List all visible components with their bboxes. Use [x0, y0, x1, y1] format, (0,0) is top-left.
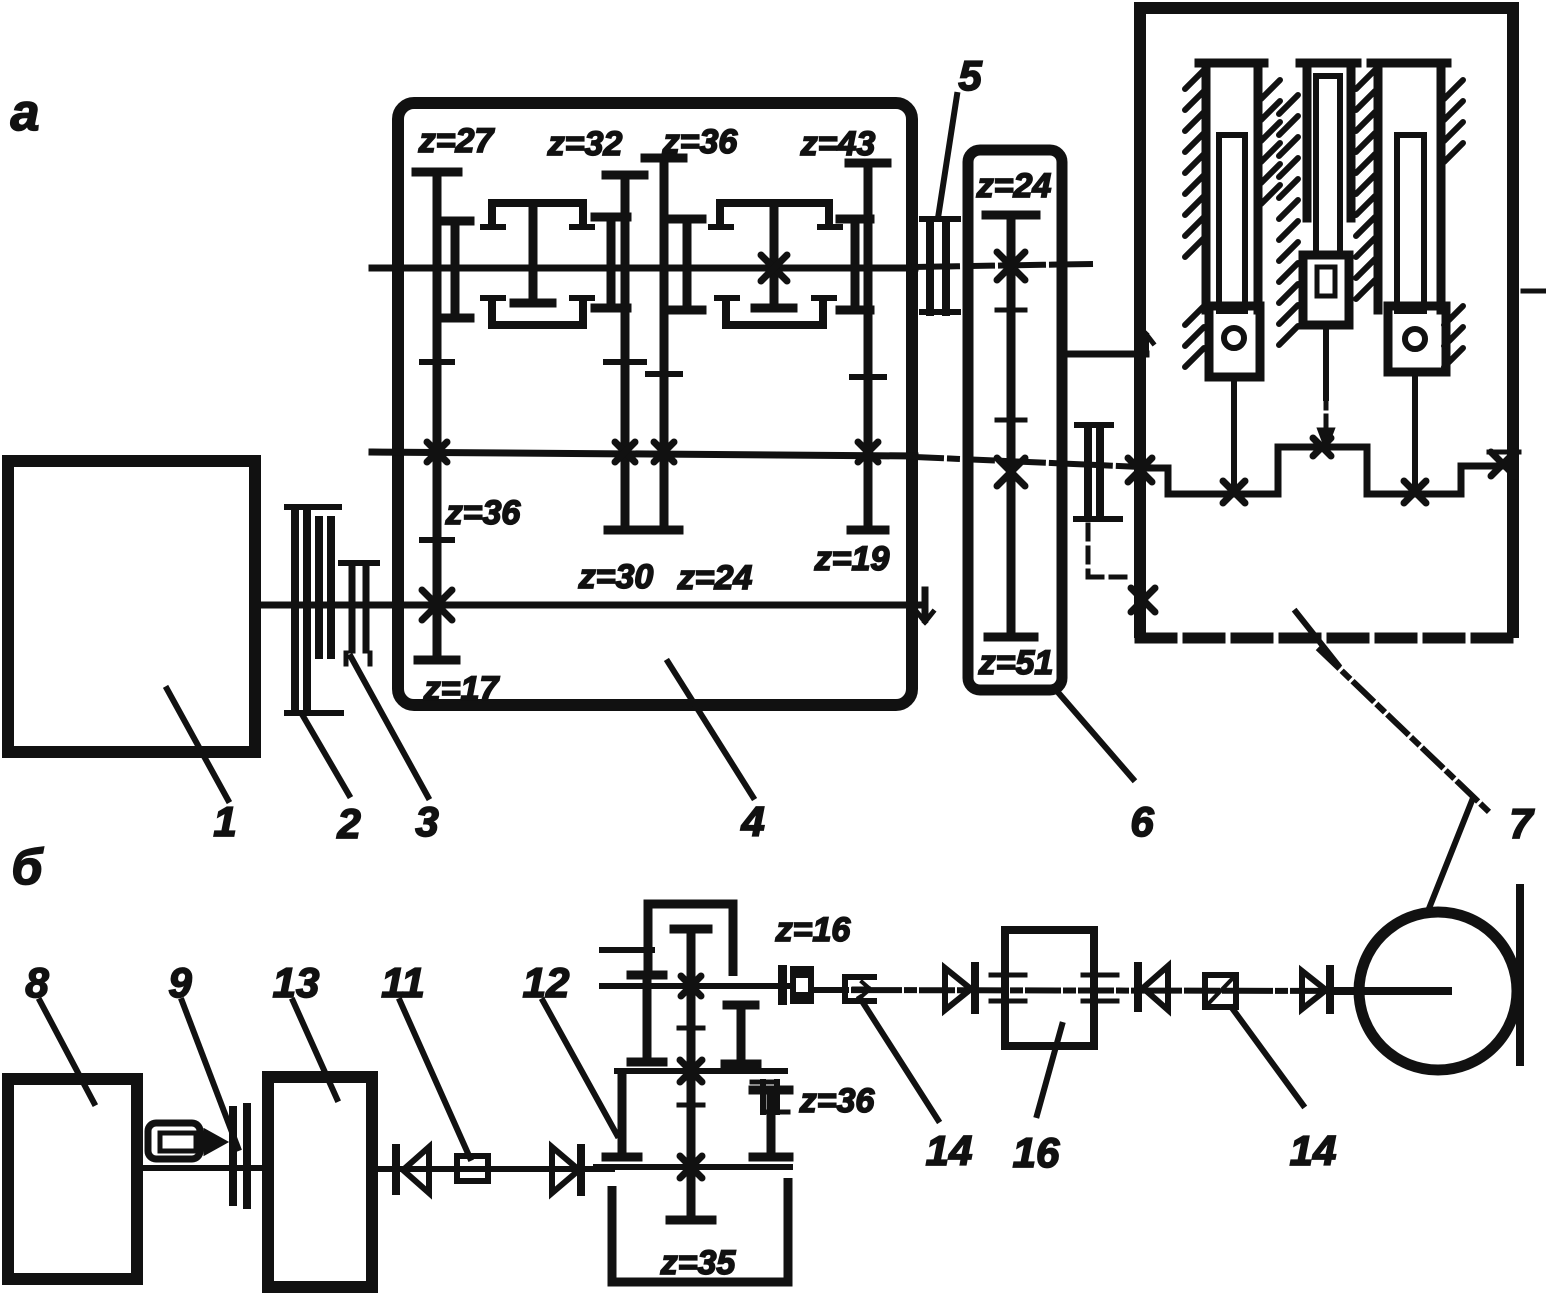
svg-text:8: 8	[25, 959, 49, 1006]
svg-text:16: 16	[1013, 1129, 1060, 1176]
svg-text:11: 11	[381, 959, 425, 1006]
svg-text:z=43: z=43	[800, 125, 876, 163]
svg-text:б: б	[12, 839, 45, 895]
svg-text:9: 9	[168, 959, 192, 1006]
svg-text:z=35: z=35	[660, 1244, 737, 1282]
svg-text:13: 13	[273, 959, 320, 1006]
svg-text:z=30: z=30	[578, 558, 654, 596]
svg-text:z=27: z=27	[418, 122, 496, 160]
svg-text:7: 7	[1509, 800, 1534, 847]
svg-text:2: 2	[336, 800, 360, 847]
svg-text:5: 5	[958, 52, 982, 99]
svg-text:z=51: z=51	[978, 644, 1054, 682]
svg-text:a: a	[11, 84, 40, 142]
svg-text:z=36: z=36	[662, 123, 739, 161]
svg-text:z=19: z=19	[814, 540, 890, 578]
svg-text:z=17: z=17	[423, 670, 501, 708]
svg-text:1: 1	[213, 798, 236, 845]
svg-text:6: 6	[1130, 798, 1154, 845]
svg-text:z=24: z=24	[976, 167, 1052, 205]
svg-text:3: 3	[415, 798, 438, 845]
svg-text:4: 4	[740, 798, 764, 845]
svg-text:z=32: z=32	[547, 125, 623, 163]
svg-text:z=36: z=36	[799, 1082, 876, 1120]
svg-text:14: 14	[1290, 1127, 1337, 1174]
svg-text:14: 14	[926, 1127, 973, 1174]
svg-text:z=24: z=24	[677, 559, 753, 597]
svg-text:12: 12	[523, 959, 570, 1006]
svg-text:z=16: z=16	[775, 911, 852, 949]
svg-text:z=36: z=36	[445, 494, 522, 532]
